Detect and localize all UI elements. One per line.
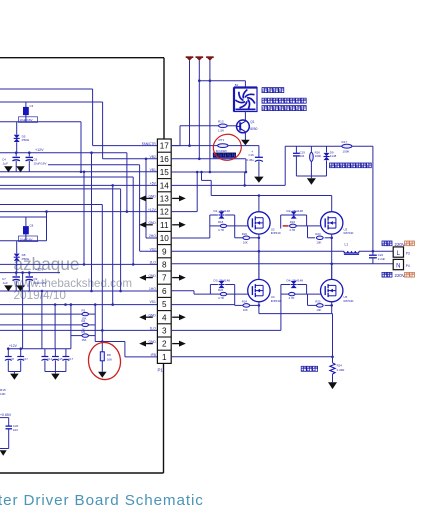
svg-text:+12V: +12V bbox=[9, 344, 18, 348]
svg-text:2HO: 2HO bbox=[149, 234, 156, 238]
svg-text:2019/4/10: 2019/4/10 bbox=[14, 288, 67, 302]
wire pin3 riser bbox=[171, 294, 281, 330]
svg-text:9: 9 bbox=[162, 247, 167, 256]
wire net pin9 VS2 bbox=[140, 250, 158, 252]
sheet border right edge lower bbox=[163, 363, 165, 473]
svg-text:5: 5 bbox=[162, 300, 167, 309]
ground symbol shunt bbox=[328, 382, 337, 389]
ground bus arrows pins 13/11/7/4/2 bbox=[139, 195, 186, 346]
svg-text:10K: 10K bbox=[107, 358, 112, 362]
diode D5 bbox=[14, 122, 30, 153]
resistor R18 gate bbox=[210, 220, 248, 232]
svg-text:0.45u: 0.45u bbox=[247, 158, 255, 162]
wire RC bottom rail bbox=[296, 176, 326, 178]
resistor R16 bbox=[310, 146, 322, 176]
svg-text:+12V: +12V bbox=[148, 208, 157, 212]
label fan chinese line1 bbox=[262, 88, 284, 93]
svg-text:D2_2N4148: D2_2N4148 bbox=[287, 209, 304, 213]
wire pin10 net bbox=[171, 226, 210, 238]
svg-text:13: 13 bbox=[160, 195, 170, 204]
svg-text:C15: C15 bbox=[58, 357, 63, 361]
wire net to pin16 bbox=[0, 102, 157, 160]
power flag VCC1 bbox=[186, 56, 194, 61]
svg-text:+12V: +12V bbox=[35, 148, 44, 152]
wire U4 source bbox=[258, 302, 260, 314]
wire pin17 riser bbox=[171, 126, 218, 146]
svg-text:VB2: VB2 bbox=[150, 155, 156, 159]
svg-text:10K: 10K bbox=[316, 241, 321, 245]
svg-text:N: N bbox=[396, 264, 400, 270]
wire bottom caps risers bbox=[21, 271, 56, 348]
label voltage adjust chinese bbox=[330, 163, 372, 168]
label constantan chinese bbox=[301, 366, 317, 371]
svg-text:P1: P1 bbox=[158, 368, 164, 373]
capacitor C19 bbox=[293, 146, 305, 176]
svg-text:R13: R13 bbox=[218, 120, 224, 124]
wire U4 drain bbox=[258, 251, 260, 279]
svg-text:220V: 220V bbox=[395, 273, 405, 278]
wire +12V branch to cluster2 bbox=[0, 212, 47, 217]
svg-text:P3: P3 bbox=[406, 251, 410, 255]
label P1 bbox=[158, 368, 164, 373]
svg-text:220V: 220V bbox=[395, 242, 405, 247]
svg-text:10uF/16V: 10uF/16V bbox=[20, 118, 33, 122]
mosfet U2 IRF540 bbox=[248, 212, 281, 235]
capacitor C3 bbox=[24, 102, 34, 122]
wire pin5 net bbox=[171, 304, 235, 306]
sheet border bottom edge bbox=[0, 472, 164, 474]
wire lower source rail bbox=[259, 314, 333, 357]
svg-text:4.7R: 4.7R bbox=[289, 228, 295, 232]
svg-text:.1uF: .1uF bbox=[2, 161, 8, 165]
label C8 value box bbox=[19, 236, 38, 242]
wire U5 drain bbox=[331, 264, 333, 280]
shunt resistor R26 constantan bbox=[330, 357, 344, 383]
svg-text:10uF/16V: 10uF/16V bbox=[34, 281, 47, 285]
svg-text:+12V: +12V bbox=[35, 268, 44, 272]
wire fan supply bbox=[199, 81, 245, 88]
svg-text:D3_2N4148: D3_2N4148 bbox=[214, 278, 231, 282]
svg-text:IRF540: IRF540 bbox=[344, 299, 354, 303]
resistor R20 gate bbox=[210, 288, 247, 300]
wire net pin1 IFB bbox=[95, 342, 157, 357]
svg-text:2.2uF: 2.2uF bbox=[378, 257, 386, 261]
wire C21 down bbox=[258, 161, 260, 176]
wire gate pulldown row1 left bbox=[235, 215, 243, 238]
wire VCC3 riser to pin15 bbox=[171, 61, 246, 187]
svg-text:R4: R4 bbox=[82, 319, 86, 323]
svg-text:C8: C8 bbox=[11, 357, 15, 361]
resistor R19 gate bbox=[289, 220, 320, 232]
wire maze to pin10 bbox=[146, 159, 157, 238]
red ellipse annotation left bbox=[87, 341, 123, 381]
wire +12V rail lower bbox=[0, 271, 60, 274]
wire pin6 net bbox=[171, 291, 210, 294]
wire R17 to C22 riser bbox=[352, 146, 373, 255]
svg-text:10: 10 bbox=[160, 234, 170, 243]
terminal N bbox=[393, 259, 410, 269]
svg-text:15K: 15K bbox=[82, 338, 87, 342]
label RT1 chinese highlight bbox=[213, 153, 236, 159]
wire R25 to source bbox=[325, 304, 333, 307]
svg-text:16: 16 bbox=[160, 155, 170, 164]
svg-text:4.7R: 4.7R bbox=[218, 296, 224, 300]
ground symbol bottom b bbox=[51, 372, 60, 380]
power flag VCC2 bbox=[196, 56, 204, 61]
wire maze extra a bbox=[90, 151, 93, 292]
wire U3 drain bbox=[331, 196, 333, 212]
svg-text:10uF/16V: 10uF/16V bbox=[34, 161, 47, 165]
label fan chinese line3 bbox=[262, 106, 306, 111]
svg-text:7: 7 bbox=[162, 274, 167, 283]
resistor R25 10K bbox=[315, 299, 323, 312]
svg-text:8050: 8050 bbox=[250, 127, 257, 131]
capacitors C10-C17 row bbox=[5, 349, 74, 372]
svg-text:12: 12 bbox=[160, 208, 170, 217]
wire net pin12 +12V bbox=[0, 210, 157, 213]
svg-text:1: 1 bbox=[162, 353, 167, 362]
svg-text:C8: C8 bbox=[30, 223, 34, 227]
thermistor RT1 bbox=[216, 138, 228, 153]
wire gate pulldown row1 right bbox=[308, 226, 316, 238]
svg-text:R20: R20 bbox=[218, 288, 224, 292]
svg-text:R19: R19 bbox=[290, 220, 296, 224]
capacitor C9 bbox=[26, 273, 47, 291]
svg-text:IFB: IFB bbox=[151, 353, 157, 357]
wire maze to pin9 bbox=[48, 165, 140, 251]
svg-text:B1: B1 bbox=[235, 83, 239, 87]
svg-text:4: 4 bbox=[162, 313, 167, 322]
svg-text:2LO: 2LO bbox=[150, 261, 157, 265]
svg-text:.1uF: .1uF bbox=[2, 281, 8, 285]
watermark text bbox=[13, 254, 133, 302]
wire maze to pin3 bbox=[0, 205, 104, 332]
wire maze to pin6 bbox=[0, 189, 121, 291]
wire U5 source bbox=[331, 302, 333, 314]
mosfet U4 IRF540 bbox=[248, 279, 281, 302]
svg-text:+0.65V: +0.65V bbox=[0, 413, 12, 417]
svg-text:R17: R17 bbox=[342, 140, 348, 144]
wire RT1 to C21 bbox=[228, 146, 259, 158]
svg-text:4.7R: 4.7R bbox=[289, 296, 295, 300]
svg-text:IRF540: IRF540 bbox=[271, 231, 281, 235]
diode D9 bbox=[324, 146, 337, 176]
svg-text:8: 8 bbox=[162, 261, 167, 270]
resistor R21 gate bbox=[281, 292, 321, 300]
resistor R3 bbox=[0, 308, 95, 320]
wire net pin8 2LO bbox=[0, 263, 157, 266]
svg-text:R24: R24 bbox=[242, 299, 248, 303]
svg-text:4F103W: 4F103W bbox=[216, 149, 227, 153]
wire gate pulldown row2 left bbox=[235, 285, 243, 306]
svg-text:P6KE: P6KE bbox=[22, 138, 30, 142]
wire VCC2 riser to pin16 bbox=[171, 61, 247, 174]
ground symbol RC block bbox=[307, 178, 316, 185]
svg-text:R25: R25 bbox=[315, 299, 321, 303]
inductor L1 bbox=[344, 243, 359, 255]
svg-text:R18: R18 bbox=[218, 220, 224, 224]
wire net FAN/CTR left bbox=[0, 89, 157, 146]
svg-text:P6KE: P6KE bbox=[22, 257, 30, 261]
label output chinese top bbox=[382, 241, 415, 247]
wire U3 source to bridge B bbox=[330, 234, 333, 279]
svg-text:100K: 100K bbox=[315, 154, 322, 158]
capacitor C7 bbox=[2, 273, 20, 291]
wire Q1 emitter bbox=[244, 132, 246, 140]
svg-text:104: 104 bbox=[300, 154, 305, 158]
label +12V cluster1 bbox=[35, 148, 44, 152]
label R15 bbox=[0, 388, 6, 396]
sheet border right edge upper bbox=[163, 58, 165, 139]
svg-text:10K: 10K bbox=[243, 241, 248, 245]
wire net pin14 +5V bbox=[0, 184, 157, 187]
svg-text:15: 15 bbox=[160, 168, 170, 177]
svg-text:10uF/16V: 10uF/16V bbox=[20, 237, 33, 241]
diode D8 bbox=[14, 241, 30, 273]
svg-text:17: 17 bbox=[160, 142, 170, 151]
wire net pin15 VB1 bbox=[0, 171, 157, 173]
wire pin14 net right bbox=[171, 146, 285, 185]
resistor R17 bbox=[342, 140, 352, 154]
ground symbol mini bbox=[0, 450, 7, 456]
wire maze to pin8 bbox=[0, 177, 133, 264]
svg-text:14: 14 bbox=[160, 181, 170, 190]
label C3 value box bbox=[19, 117, 38, 123]
wire L1 to terminal L bbox=[359, 250, 393, 252]
svg-text:103: 103 bbox=[13, 428, 18, 432]
svg-text:R8: R8 bbox=[107, 353, 111, 357]
svg-text:1.5K: 1.5K bbox=[218, 128, 224, 132]
diode D1 2N4148 bbox=[210, 209, 235, 226]
wire R23 to source bbox=[325, 237, 333, 240]
red ellipse annotation RT1 bbox=[212, 132, 243, 162]
svg-text:R24: R24 bbox=[337, 364, 343, 368]
power flag VCC3 bbox=[206, 56, 214, 61]
ground symbol cluster2 b bbox=[16, 285, 25, 291]
Q1 emitter arrow bbox=[241, 140, 250, 145]
fan B1 cooling fan symbol bbox=[234, 83, 257, 112]
svg-text:10K: 10K bbox=[243, 308, 248, 312]
svg-text:10K: 10K bbox=[316, 308, 321, 312]
capacitor C20 bbox=[6, 424, 19, 432]
svg-text:P4: P4 bbox=[406, 264, 410, 268]
resistor R4 bbox=[0, 319, 95, 331]
wire net pin5 VS1 bbox=[0, 303, 157, 306]
svg-text:D4_2N4148: D4_2N4148 bbox=[287, 278, 304, 282]
wire +12V rail upper bbox=[0, 153, 128, 213]
red wire segment bbox=[283, 225, 289, 227]
svg-text:6: 6 bbox=[162, 287, 167, 296]
label +0.65V bbox=[0, 413, 12, 417]
svg-text:FAN/CTR: FAN/CTR bbox=[142, 142, 157, 146]
wire bottom caps top rail bbox=[7, 347, 71, 350]
wire U2 source to bridge A bbox=[258, 234, 261, 279]
wire RC top rail bbox=[285, 145, 341, 147]
label +12V bottom bbox=[9, 344, 18, 348]
wire pin9 VS2 line to inductor bbox=[171, 250, 344, 252]
mosfet U5 IRF540 bbox=[321, 279, 354, 302]
resistor R13 bbox=[218, 120, 227, 133]
svg-text:10K: 10K bbox=[0, 392, 6, 396]
svg-text:IRF540: IRF540 bbox=[344, 231, 354, 235]
wire fan to Q1 bbox=[244, 112, 246, 122]
svg-text:ter Driver Board Schematic: ter Driver Board Schematic bbox=[0, 492, 204, 508]
wire pin12 net right bbox=[171, 171, 198, 212]
ground symbol bottom a bbox=[10, 372, 19, 380]
svg-text:C14: C14 bbox=[47, 357, 52, 361]
svg-text:VB1: VB1 bbox=[150, 168, 156, 172]
svg-text:R23: R23 bbox=[315, 232, 321, 236]
wire net pin6 1HO bbox=[0, 290, 157, 293]
svg-text:2: 2 bbox=[162, 340, 167, 349]
wire drain rail upper bbox=[200, 171, 332, 197]
wire R24 to source bbox=[250, 304, 261, 307]
label +12V cluster2 bbox=[35, 268, 44, 272]
svg-text:+: + bbox=[251, 150, 253, 154]
svg-text:D1_2N4148: D1_2N4148 bbox=[214, 209, 231, 213]
wire maze extra b bbox=[83, 171, 86, 266]
wire net pin3 1LO bbox=[0, 329, 157, 331]
diode D4 2N4148 bbox=[281, 278, 307, 294]
svg-text:11: 11 bbox=[160, 221, 169, 230]
resistor R24 10K bbox=[242, 299, 250, 312]
caption text bbox=[0, 492, 204, 508]
wire resistor stack right riser bbox=[94, 303, 97, 341]
svg-text:3: 3 bbox=[162, 327, 167, 336]
label output chinese bottom bbox=[382, 272, 415, 278]
svg-text:0.33R: 0.33R bbox=[337, 368, 345, 372]
connector P1 17-pin header bbox=[157, 139, 171, 363]
svg-text:Q1: Q1 bbox=[250, 120, 254, 124]
wire cluster1 lower rail bbox=[0, 122, 82, 173]
wire mini circuit loop bbox=[0, 418, 9, 449]
wire pin17 net bbox=[171, 145, 217, 147]
svg-text:VS2: VS2 bbox=[150, 247, 156, 251]
svg-text:100K: 100K bbox=[343, 150, 350, 154]
svg-text:C3: C3 bbox=[30, 104, 34, 108]
svg-text:4148: 4148 bbox=[330, 154, 337, 158]
svg-text:1HO: 1HO bbox=[149, 287, 156, 291]
wire cluster2 lower rail bbox=[0, 217, 47, 241]
wire resistor stack left riser bbox=[70, 303, 73, 348]
svg-text:R3: R3 bbox=[82, 308, 86, 312]
transistor Q1 bbox=[237, 120, 258, 133]
svg-text:VS1: VS1 bbox=[150, 300, 156, 304]
diode D2 2N4148 bbox=[281, 209, 307, 229]
wire U2 drain bbox=[258, 196, 260, 212]
wire R22 to source bbox=[250, 237, 261, 240]
resistor R23 10K bbox=[315, 232, 323, 245]
ground symbol cluster1 a bbox=[4, 166, 13, 172]
capacitor C8 bbox=[24, 217, 34, 241]
resistor R8 bbox=[100, 330, 112, 371]
ground symbol cluster1 b bbox=[16, 166, 25, 172]
ground symbol C21 bbox=[254, 177, 264, 183]
connector pin labels bbox=[142, 142, 157, 357]
capacitor C22 bbox=[369, 250, 385, 264]
ground symbol cluster2 a bbox=[4, 285, 13, 291]
wire R13 to Q1 base bbox=[227, 125, 236, 127]
capacitor C6 bbox=[26, 151, 47, 171]
resistor R22 10K bbox=[242, 232, 250, 245]
svg-text:IRF540: IRF540 bbox=[271, 299, 281, 303]
wire pin1 net right bbox=[171, 356, 334, 359]
capacitor C4 bbox=[2, 151, 20, 171]
terminal L bbox=[393, 247, 410, 257]
wire VCC1 riser bbox=[188, 61, 191, 147]
svg-text:1LO: 1LO bbox=[150, 327, 157, 331]
svg-text:L1: L1 bbox=[345, 243, 349, 247]
resistor R5 bbox=[71, 330, 95, 342]
sheet border top edge bbox=[0, 57, 164, 59]
capacitor C21 bbox=[247, 150, 263, 162]
svg-text:R5: R5 bbox=[82, 330, 86, 334]
wire gate pulldown row2 right bbox=[308, 294, 317, 305]
ground symbol R8 bbox=[98, 372, 107, 378]
label fan chinese line2 bbox=[262, 98, 306, 103]
mosfet U3 IRF540 bbox=[321, 212, 354, 235]
diode D3 2N4148 bbox=[210, 278, 234, 294]
wire maze to pin5 bbox=[112, 185, 114, 304]
svg-text:RT1: RT1 bbox=[219, 138, 225, 142]
svg-text:C17: C17 bbox=[23, 357, 28, 361]
wire pin8 N line bbox=[171, 263, 393, 265]
svg-text:R22: R22 bbox=[242, 232, 248, 236]
svg-text:4.7R: 4.7R bbox=[218, 228, 224, 232]
svg-text:C17: C17 bbox=[68, 357, 73, 361]
svg-text:+5V: +5V bbox=[150, 181, 157, 185]
